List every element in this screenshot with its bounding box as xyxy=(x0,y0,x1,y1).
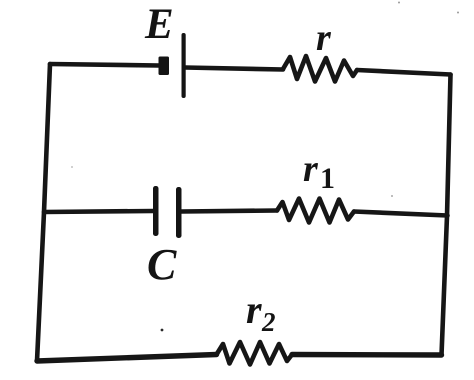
wire middle-left horizontal xyxy=(44,211,153,212)
ink speck dot xyxy=(161,329,164,332)
wire resistor r to top-right corner xyxy=(357,70,451,75)
label E xyxy=(145,3,174,46)
wire left vertical xyxy=(37,64,50,361)
wire right vertical xyxy=(442,75,451,356)
resistor r xyxy=(283,56,357,82)
faint speck xyxy=(391,195,393,197)
battery E: long thin positive plate xyxy=(182,33,186,98)
faint speck xyxy=(457,12,459,14)
label r2 xyxy=(246,290,262,330)
wire bottom horizontal left xyxy=(37,355,217,362)
label r xyxy=(316,19,331,57)
wire top-left horizontal xyxy=(50,64,159,66)
faint speck xyxy=(398,2,400,4)
label C xyxy=(147,243,176,287)
wire resistor r1 to right wire xyxy=(354,212,448,216)
battery E: thick short negative plate xyxy=(159,57,170,76)
label r2 subscript 2 xyxy=(262,309,276,336)
wire battery to resistor r xyxy=(185,68,283,70)
faint speck xyxy=(71,166,73,168)
label r1 subscript 1 xyxy=(320,164,335,194)
wire capacitor to resistor r1 xyxy=(182,211,278,212)
capacitor C: left plate xyxy=(153,186,159,236)
label r1 xyxy=(303,150,318,188)
resistor r2 xyxy=(217,342,293,365)
wire bottom horizontal right xyxy=(292,352,442,358)
resistor r1 xyxy=(277,199,354,223)
capacitor C: right plate xyxy=(176,187,182,238)
